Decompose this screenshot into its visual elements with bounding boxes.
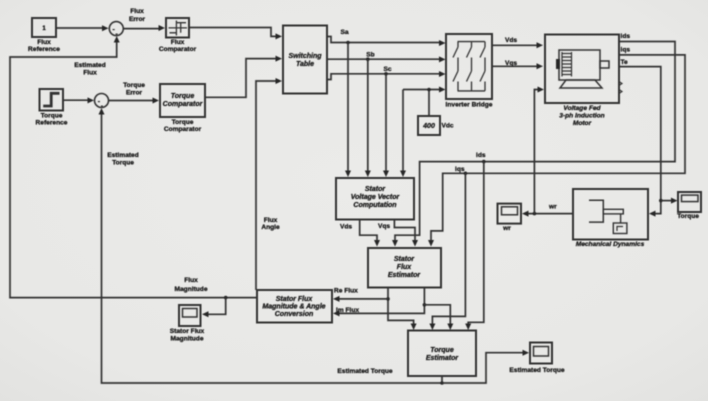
svg-text:wr: wr — [502, 225, 511, 232]
svg-text:Flux: Flux — [264, 217, 278, 224]
svg-text:Error: Error — [129, 16, 146, 23]
svg-text:Im Flux: Im Flux — [336, 307, 359, 314]
wire: Torque Comparator to Switching Table input 2 — [205, 56, 282, 98]
svg-text:Estimated: Estimated — [74, 62, 106, 69]
block: Flux Comparator (relay) — [159, 18, 197, 53]
svg-text:Flux: Flux — [171, 39, 185, 46]
block: Stator Flux Magnitude & Angle Conversion — [257, 290, 332, 323]
label: Estimated Flux — [74, 62, 106, 77]
wire: flux angle feedback to Switching Table input 3 — [256, 78, 282, 290]
svg-text:Sc: Sc — [383, 66, 391, 73]
label: Flux Magnitude — [175, 277, 208, 293]
svg-text:Torque: Torque — [123, 82, 145, 89]
scope: Torque — [677, 192, 701, 220]
block: Torque Estimator — [408, 331, 476, 377]
block: Switching Table — [283, 26, 327, 94]
wire: flux sum to Flux Comparator — [123, 25, 165, 31]
sum junction: flux error summer — [109, 22, 123, 38]
svg-text:ids: ids — [476, 152, 486, 159]
svg-text:Torque: Torque — [41, 113, 63, 120]
svg-text:Flux: Flux — [37, 39, 51, 46]
block: Voltage Fed 3-ph Induction Motor — [545, 35, 622, 128]
svg-text:Conversion: Conversion — [275, 311, 314, 318]
wire: flux magnitude output to feedback and scope — [10, 36, 257, 317]
label: Torque Error — [123, 82, 145, 97]
svg-text:Re Flux: Re Flux — [334, 288, 358, 295]
svg-text:Table: Table — [296, 61, 314, 68]
svg-text:Sb: Sb — [366, 52, 374, 59]
wire: Re Flux from estimator to conversion block and Torque Estimator input 1 — [333, 288, 417, 331]
svg-text:Comparator: Comparator — [163, 101, 204, 108]
svg-text:Vds: Vds — [505, 37, 517, 44]
svg-text:Magnitude: Magnitude — [171, 336, 204, 343]
svg-text:Estimated Torque: Estimated Torque — [509, 367, 565, 374]
svg-text:Voltage Fed: Voltage Fed — [563, 105, 601, 112]
svg-text:Stator Flux: Stator Flux — [170, 328, 205, 335]
svg-text:Torque: Torque — [430, 347, 454, 354]
svg-text:Sa: Sa — [340, 29, 348, 36]
svg-text:iqs: iqs — [621, 46, 631, 53]
wire: ids from motor to flux estimator input 2 — [392, 42, 675, 247]
svg-text:Torque: Torque — [112, 160, 134, 167]
svg-text:Vqs: Vqs — [378, 223, 390, 230]
label: Flux Error — [129, 8, 146, 23]
block: Stator Voltage Vector Computation — [336, 178, 414, 220]
wire: Sb from Switching Table to Inverter Bridge — [327, 56, 446, 62]
wire: Torque Reference to torque sum — [62, 97, 94, 103]
svg-text:Estimator: Estimator — [426, 355, 460, 362]
wire: iqs from motor to flux estimator input 4 — [428, 55, 685, 247]
svg-text:iqs: iqs — [455, 166, 465, 173]
wire: Flux Comparator to Switching Table input 1 — [189, 28, 282, 40]
svg-text:400: 400 — [422, 123, 435, 130]
svg-text:Stator: Stator — [394, 256, 416, 263]
svg-text:3-ph Induction: 3-ph Induction — [559, 113, 604, 120]
block: Torque Comparator — [160, 84, 205, 133]
sum junction: torque error summer — [95, 94, 109, 111]
wire: SVVC Vqs output to Stator Flux Estimator input 3 — [394, 220, 418, 247]
svg-text:Switching: Switching — [288, 53, 322, 60]
block: Mechanical Dynamics — [573, 189, 648, 248]
svg-text:Comparator: Comparator — [159, 46, 197, 53]
svg-text:Reference: Reference — [36, 120, 68, 127]
label: Flux Angle — [261, 217, 280, 231]
svg-text:Inverter Bridge: Inverter Bridge — [446, 102, 493, 109]
svg-text:Comparator: Comparator — [164, 126, 202, 133]
block: Flux Reference constant "1" — [28, 18, 60, 53]
wire: Flux Reference to flux sum — [56, 25, 109, 31]
svg-text:Vds: Vds — [340, 224, 352, 231]
block: Torque Reference (step) — [36, 89, 68, 127]
wire: Sa from Switching Table to Inverter Bridge — [327, 37, 446, 47]
scope: wr — [498, 204, 522, 232]
svg-text:Stator: Stator — [365, 186, 387, 193]
svg-text:Vqs: Vqs — [505, 60, 517, 67]
svg-text:Vdc: Vdc — [442, 123, 454, 130]
wire: Sa tap down to Stator Voltage Vector Computation — [345, 43, 351, 178]
svg-text:Estimated: Estimated — [107, 152, 139, 159]
svg-text:Motor: Motor — [573, 120, 592, 127]
svg-text:Error: Error — [126, 90, 143, 97]
svg-text:Mechanical Dynamics: Mechanical Dynamics — [576, 241, 645, 248]
svg-text:Magnitude: Magnitude — [175, 286, 208, 293]
wire: Vdc to Inverter Bridge input 4 and to SVVC — [400, 87, 446, 178]
svg-text:Torque: Torque — [171, 93, 195, 100]
svg-text:ids: ids — [621, 33, 631, 40]
wire: Te from motor to Mechanical Dynamics and Torque scope — [619, 67, 678, 217]
svg-text:Flux: Flux — [130, 8, 144, 15]
svg-text:Flux: Flux — [184, 277, 198, 284]
svg-text:Flux: Flux — [83, 70, 97, 77]
scope: Stator Flux Magnitude — [170, 305, 205, 343]
label: Estimated Torque (feedback) — [107, 152, 139, 167]
wire: torque sum to Torque Comparator — [109, 98, 160, 104]
svg-text:Torque: Torque — [677, 213, 699, 220]
svg-text:Reference: Reference — [28, 46, 60, 53]
block: Vdc constant 400 — [418, 116, 454, 135]
block: Stator Flux Estimator — [368, 248, 441, 288]
svg-text:wr: wr — [548, 204, 557, 211]
svg-text:Voltage Vector: Voltage Vector — [351, 194, 401, 201]
wire: Sc from Switching Table to Inverter Bridge — [327, 71, 446, 80]
svg-text:Estimator: Estimator — [388, 272, 422, 279]
svg-text:Estimated Torque: Estimated Torque — [337, 368, 393, 375]
wire: Torque Estimator output feedback and to scope — [99, 108, 530, 385]
svg-text:Torque: Torque — [172, 119, 194, 126]
wire: iqs branch down to Torque Estimator input 2 — [429, 173, 465, 330]
block: Inverter Bridge — [446, 34, 493, 109]
svg-text:Stator Flux: Stator Flux — [276, 296, 314, 303]
wire: wr output to scope and motor feedback — [522, 87, 573, 217]
svg-text:Te: Te — [621, 59, 629, 66]
svg-text:Computation: Computation — [353, 202, 396, 209]
wire: ids branch down to Torque Estimator input 4 — [465, 162, 484, 330]
scope: Estimated Torque — [509, 343, 565, 375]
wire: SVVC Vds output to Stator Flux Estimator input 1 — [360, 220, 380, 247]
wire: Vds inverter to motor — [492, 42, 543, 48]
svg-text:Flux: Flux — [397, 264, 412, 271]
svg-text:Magnitude & Angle: Magnitude & Angle — [262, 304, 325, 311]
wire: Im Flux from estimator to conversion block and Torque Estimator input 3 — [333, 288, 453, 331]
wire: Sc tap down to Stator Voltage Vector Computation — [383, 74, 389, 177]
svg-text:Angle: Angle — [261, 224, 280, 231]
wire: Sb tap down to Stator Voltage Vector Computation — [365, 59, 371, 177]
wire: Vqs inverter to motor — [492, 63, 543, 69]
